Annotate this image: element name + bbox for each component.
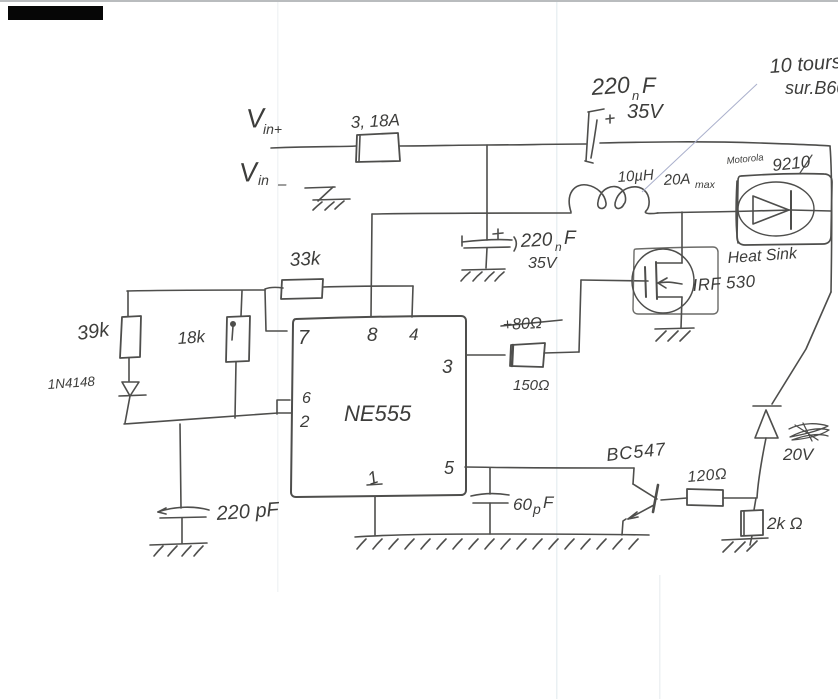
svg-text:+80Ω: +80Ω [502, 315, 542, 334]
svg-text:7: 7 [298, 327, 310, 349]
svg-text:p: p [532, 501, 541, 517]
svg-text:in+: in+ [263, 121, 282, 137]
svg-text:in: in [258, 172, 269, 188]
svg-text:5: 5 [444, 458, 455, 478]
svg-text:20V: 20V [782, 445, 815, 464]
svg-text:sur.B60: sur.B60 [785, 78, 838, 98]
svg-text:F: F [564, 228, 577, 249]
svg-text:F: F [642, 73, 657, 98]
svg-text:60: 60 [513, 495, 532, 514]
svg-text:NE555: NE555 [344, 401, 412, 426]
svg-text:6: 6 [302, 390, 311, 407]
svg-text:18k: 18k [177, 327, 207, 348]
svg-text:3: 3 [442, 357, 453, 378]
svg-text:10µH: 10µH [617, 166, 654, 185]
svg-text:2: 2 [299, 412, 310, 431]
svg-text:n: n [555, 240, 562, 254]
svg-text:F: F [543, 493, 555, 512]
svg-text:9210: 9210 [771, 152, 811, 175]
svg-text:150Ω: 150Ω [513, 377, 549, 394]
svg-text:120Ω: 120Ω [687, 466, 728, 486]
svg-text:220: 220 [519, 229, 553, 252]
svg-text:35V: 35V [528, 255, 558, 272]
svg-text:220: 220 [590, 71, 631, 100]
svg-text:10 tours: 10 tours [769, 51, 838, 78]
svg-text:39k: 39k [76, 319, 112, 345]
svg-text:3, 18A: 3, 18A [350, 110, 400, 132]
svg-text:4: 4 [409, 325, 418, 344]
svg-text:220 pF: 220 pF [215, 499, 281, 525]
svg-text:33k: 33k [289, 248, 322, 271]
svg-text:20A: 20A [662, 171, 691, 189]
svg-text:max: max [695, 179, 716, 191]
svg-text:–: – [277, 176, 287, 193]
svg-text:2k Ω: 2k Ω [766, 514, 803, 533]
svg-text:35V: 35V [627, 101, 664, 123]
svg-text:8: 8 [367, 325, 378, 346]
